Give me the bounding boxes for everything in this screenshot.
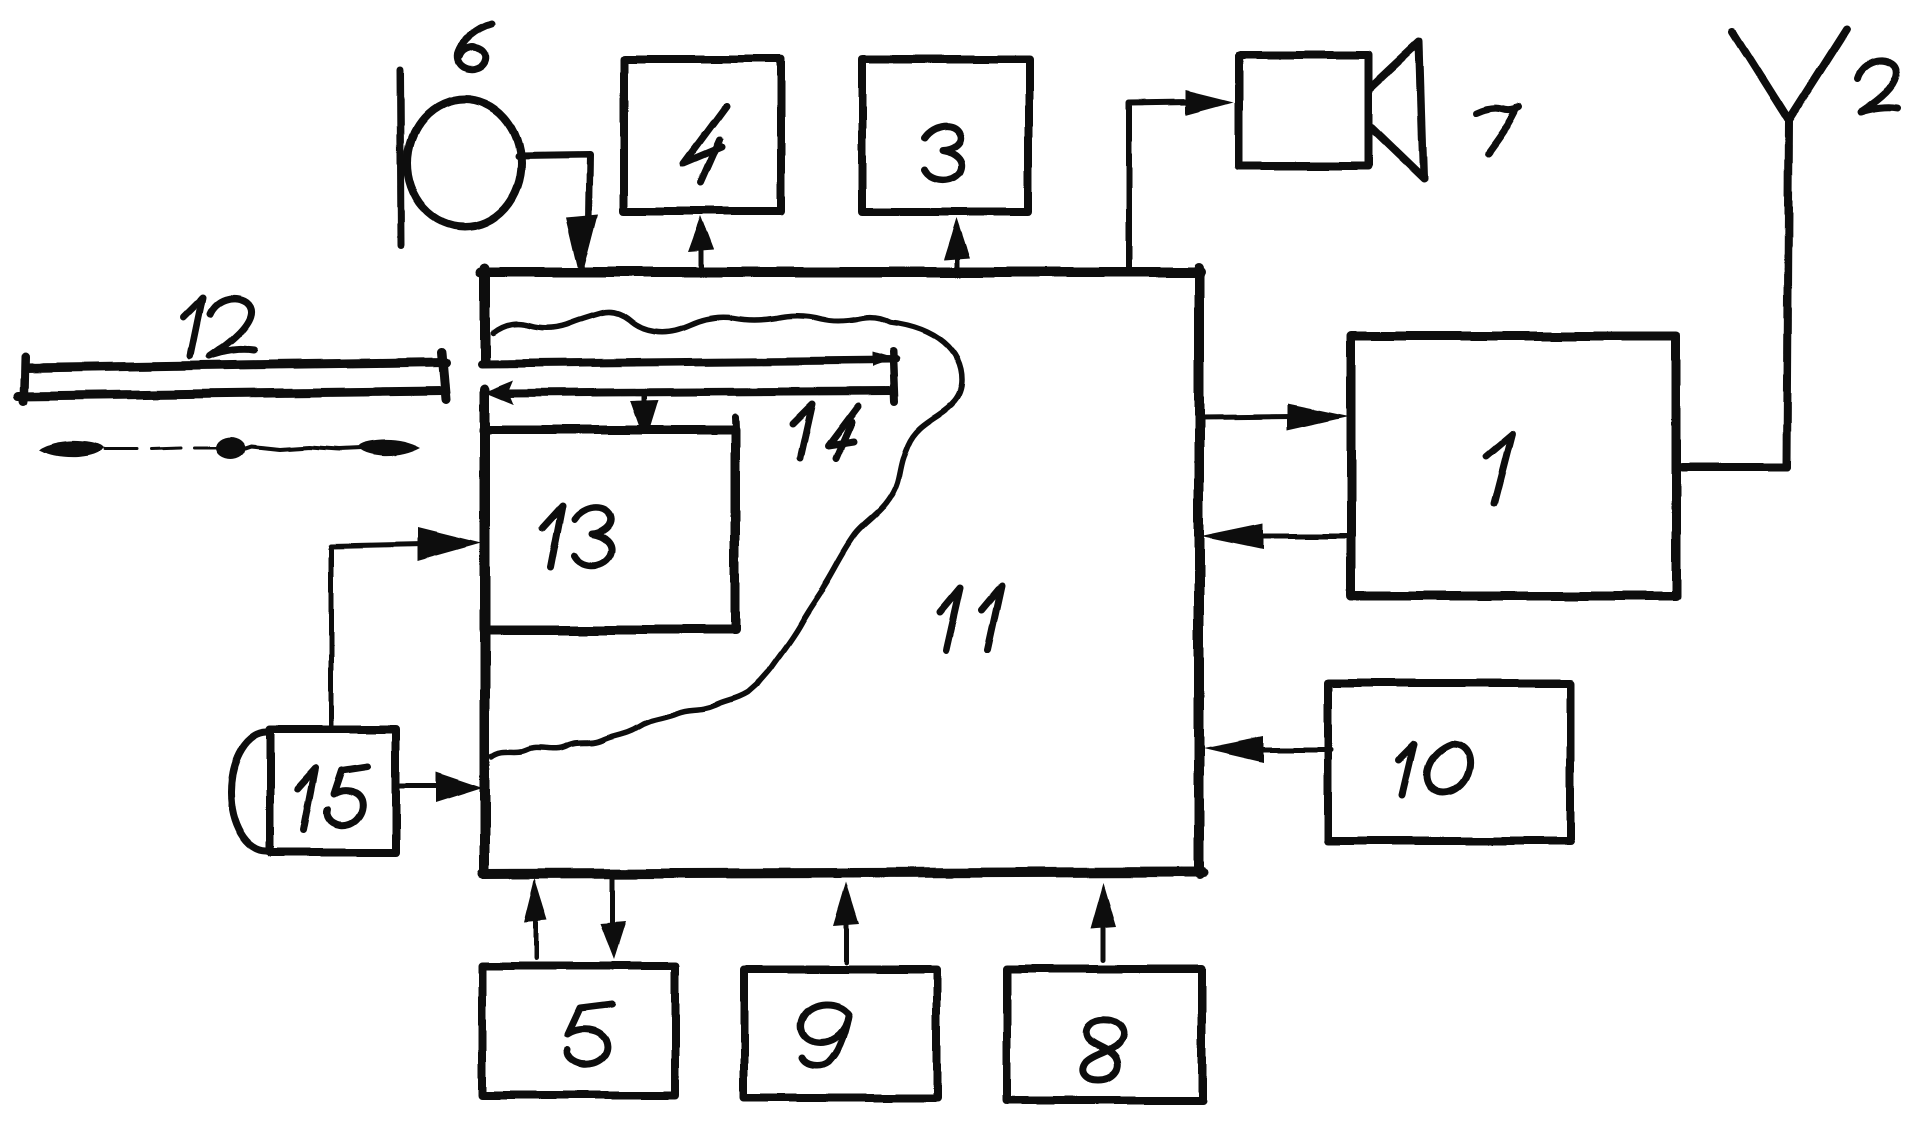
label 5 (in block 5) [568, 1004, 612, 1064]
block 11 (main unit outline) [481, 268, 1203, 874]
tape 12 (record carrier bar outside) [18, 352, 446, 401]
label 8 (in block 8) [1083, 1020, 1123, 1080]
block 8 [1007, 969, 1202, 1100]
label 9 (in block 9) [801, 1004, 848, 1065]
arrow up from block 8 into block 11 [1102, 926, 1107, 960]
label 12 [182, 298, 254, 356]
antenna 2 [1682, 29, 1847, 467]
block 4 [624, 59, 781, 211]
arrowhead at right end of bar 14 top line (points right) [872, 352, 896, 367]
label 7 [1477, 107, 1520, 154]
arrow from block 11 up into block 3 [955, 256, 960, 268]
block 9 [744, 970, 937, 1098]
label 15 (in block 15) [298, 766, 368, 830]
label 14 [792, 404, 858, 459]
label 11 (in block 11) [940, 586, 1002, 650]
block 1 [1351, 336, 1676, 596]
microphone 6 (circle) [407, 99, 521, 227]
left arrowhead of motion arrow [39, 441, 103, 457]
curved baffle on left of block 15 [230, 732, 267, 852]
label 6 [458, 24, 492, 69]
block 5 [482, 966, 675, 1095]
loudspeaker 7 box [1239, 55, 1368, 166]
arrowhead on bar 14 lower line (points left) [485, 380, 514, 404]
wire from block 11 to loudspeaker 7 [1129, 102, 1190, 268]
label 10 (in block 10) [1398, 744, 1470, 795]
arrow down from block 11 into block 5 [610, 877, 615, 925]
loudspeaker 7 horn [1370, 41, 1424, 179]
baffle line left of microphone 6 [400, 70, 401, 246]
arrow from block 11 up into block 4 [699, 248, 704, 268]
arrow from block 15 into block 11 [395, 784, 442, 789]
label 1 (in block 1) [1486, 434, 1512, 504]
arrow up from block 9 into block 11 [844, 924, 849, 963]
arrow from block 10 into block 11 [1262, 747, 1331, 752]
arrow up from block 5 into block 11 [534, 918, 539, 958]
arrow from block 1 into block 11 [1262, 534, 1347, 539]
arrow from bar 14 down into block 13 [642, 393, 647, 402]
block 15 [270, 729, 396, 853]
block 13 (inner unit) [484, 430, 735, 630]
tear-away wavy line inside block 11 [492, 312, 962, 757]
label 4 (in block 4) [684, 106, 726, 183]
overshoot tick at top-right corner of block 13 [735, 417, 736, 442]
arrow from block 11 into block 1 [1199, 416, 1292, 417]
label 13 (in block 13) [542, 506, 612, 568]
label 3 (in block 3) [924, 126, 962, 180]
right arrowhead of motion arrow [358, 440, 421, 456]
wire from microphone 6 to block 11 [518, 155, 589, 220]
block 3 [862, 59, 1029, 212]
bidirectional dashed motion arrow under tape 12 [104, 448, 224, 449]
wire from block 15 top up and into block 13 [331, 544, 424, 726]
fat arrowhead into top of block 11 [566, 214, 598, 268]
block 10 [1328, 683, 1570, 841]
centre dot of motion arrow [216, 437, 246, 459]
label 2 [1858, 61, 1898, 112]
tape guide bar 14 inside block 11 [481, 352, 896, 402]
